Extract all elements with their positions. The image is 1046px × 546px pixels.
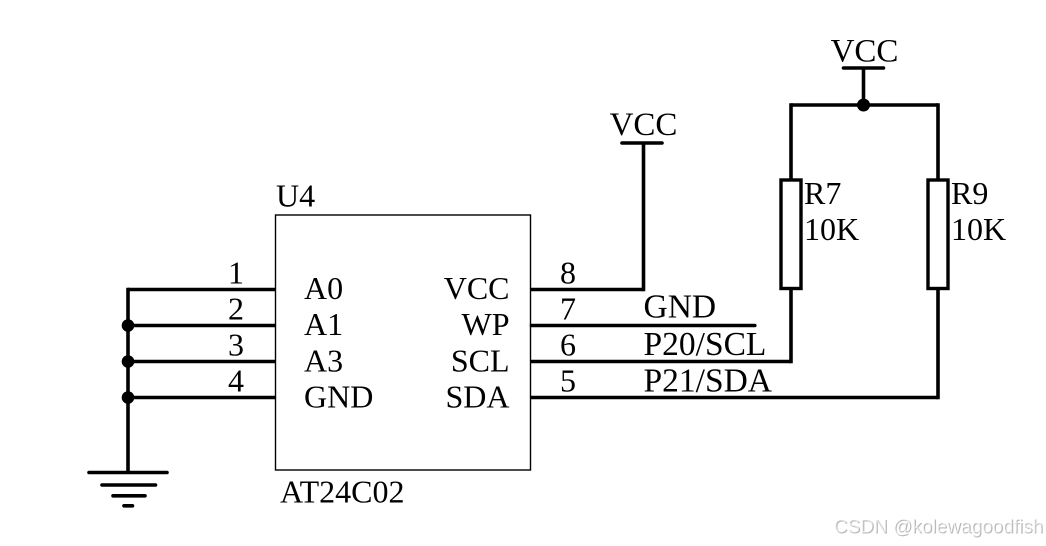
wire resistor top rail — [791, 103, 938, 107]
svg-text:CSDN @kolewagoodfish: CSDN @kolewagoodfish — [834, 516, 1043, 537]
wire R9 bottom leg — [936, 289, 940, 400]
svg-text:10K: 10K — [951, 211, 1006, 247]
junction dot pin3 — [122, 355, 135, 368]
wire R7 bottom leg — [789, 289, 793, 364]
svg-text:7: 7 — [560, 291, 576, 327]
wire R7 top leg — [789, 103, 793, 180]
wire VCC drop — [862, 68, 866, 105]
svg-text:R7: R7 — [804, 175, 841, 211]
power symbol VCC (pin8) — [622, 141, 662, 145]
wire pin6 SCL net — [531, 360, 792, 364]
wire VCC stub pin8 — [642, 143, 646, 291]
svg-text:P21/SDA: P21/SDA — [644, 363, 772, 400]
junction dot pin4 — [122, 391, 135, 404]
svg-text:P20/SCL: P20/SCL — [644, 326, 767, 363]
wire R9 top leg — [936, 103, 940, 180]
svg-text:VCC: VCC — [610, 107, 678, 143]
svg-text:6: 6 — [560, 327, 576, 363]
wire pin7 GND net — [532, 324, 755, 328]
wire pin8 — [531, 288, 644, 292]
watermark — [834, 516, 1044, 538]
svg-text:3: 3 — [228, 327, 244, 363]
power symbol VCC (resistors) — [844, 66, 884, 70]
junction dot VCC rail — [857, 99, 870, 112]
svg-text:2: 2 — [228, 291, 244, 327]
wire pin5 SDA net — [531, 396, 939, 400]
wire pin3 — [128, 360, 276, 364]
IC U4 body (AT24C02) — [276, 215, 531, 470]
svg-text:1: 1 — [228, 255, 244, 291]
ground symbol — [89, 473, 167, 506]
wire pin2 — [128, 324, 276, 328]
svg-text:GND: GND — [644, 289, 717, 326]
svg-text:VCC: VCC — [444, 270, 510, 306]
svg-text:10K: 10K — [804, 211, 859, 247]
svg-text:R9: R9 — [951, 175, 988, 211]
wire pin4 — [128, 396, 276, 400]
svg-text:VCC: VCC — [831, 34, 899, 70]
svg-text:AT24C02: AT24C02 — [280, 474, 404, 510]
wire pin1 — [128, 288, 276, 292]
svg-text:A1: A1 — [304, 306, 343, 342]
svg-text:5: 5 — [560, 363, 576, 399]
svg-text:8: 8 — [560, 255, 576, 291]
svg-text:U4: U4 — [276, 178, 315, 214]
wire left bus vertical — [126, 288, 130, 471]
svg-text:GND: GND — [304, 379, 373, 415]
svg-text:4: 4 — [228, 363, 244, 399]
svg-text:A0: A0 — [304, 270, 343, 306]
svg-text:SDA: SDA — [445, 379, 509, 415]
junction dot pin2 — [122, 319, 135, 332]
resistor R7 body — [781, 180, 801, 289]
svg-text:WP: WP — [462, 306, 510, 342]
svg-text:SCL: SCL — [451, 343, 510, 379]
resistor R9 body — [928, 180, 948, 289]
svg-text:A3: A3 — [304, 343, 343, 379]
